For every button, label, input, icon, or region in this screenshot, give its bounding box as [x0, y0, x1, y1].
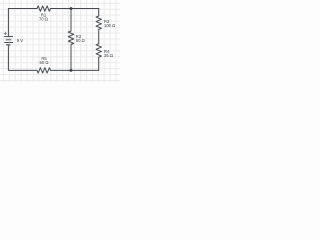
- label R5: [40, 56, 49, 65]
- wire right branch bottom: [51, 57, 99, 70]
- label R3: [104, 19, 115, 28]
- junction node bottom: [70, 69, 73, 72]
- wire right branch top: [98, 9, 100, 16]
- label R2: [76, 34, 85, 43]
- wire bottom-left: [8, 45, 37, 70]
- resistor R1: [37, 6, 51, 11]
- label R4: [104, 49, 113, 58]
- resistor R2: [68, 31, 73, 45]
- junction node top: [70, 7, 73, 10]
- svg-text:50 Ω: 50 Ω: [76, 38, 85, 43]
- wire top-left: [8, 9, 37, 36]
- svg-text:100 Ω: 100 Ω: [104, 23, 115, 28]
- svg-text:9 V: 9 V: [17, 38, 23, 43]
- wire top-right: [51, 8, 99, 10]
- wire middle branch bottom: [70, 45, 72, 71]
- resistor R3: [96, 16, 101, 30]
- wire middle branch top: [70, 9, 72, 31]
- label R1: [39, 13, 48, 22]
- wire right branch middle: [98, 29, 100, 43]
- svg-text:35 Ω: 35 Ω: [104, 53, 113, 58]
- svg-text:70 Ω: 70 Ω: [39, 17, 48, 22]
- resistor R4: [96, 44, 101, 58]
- battery V1 plus sign: [4, 32, 7, 35]
- svg-text:50 Ω: 50 Ω: [40, 60, 49, 65]
- battery V1 plates: [4, 37, 13, 45]
- resistor R5: [37, 68, 51, 73]
